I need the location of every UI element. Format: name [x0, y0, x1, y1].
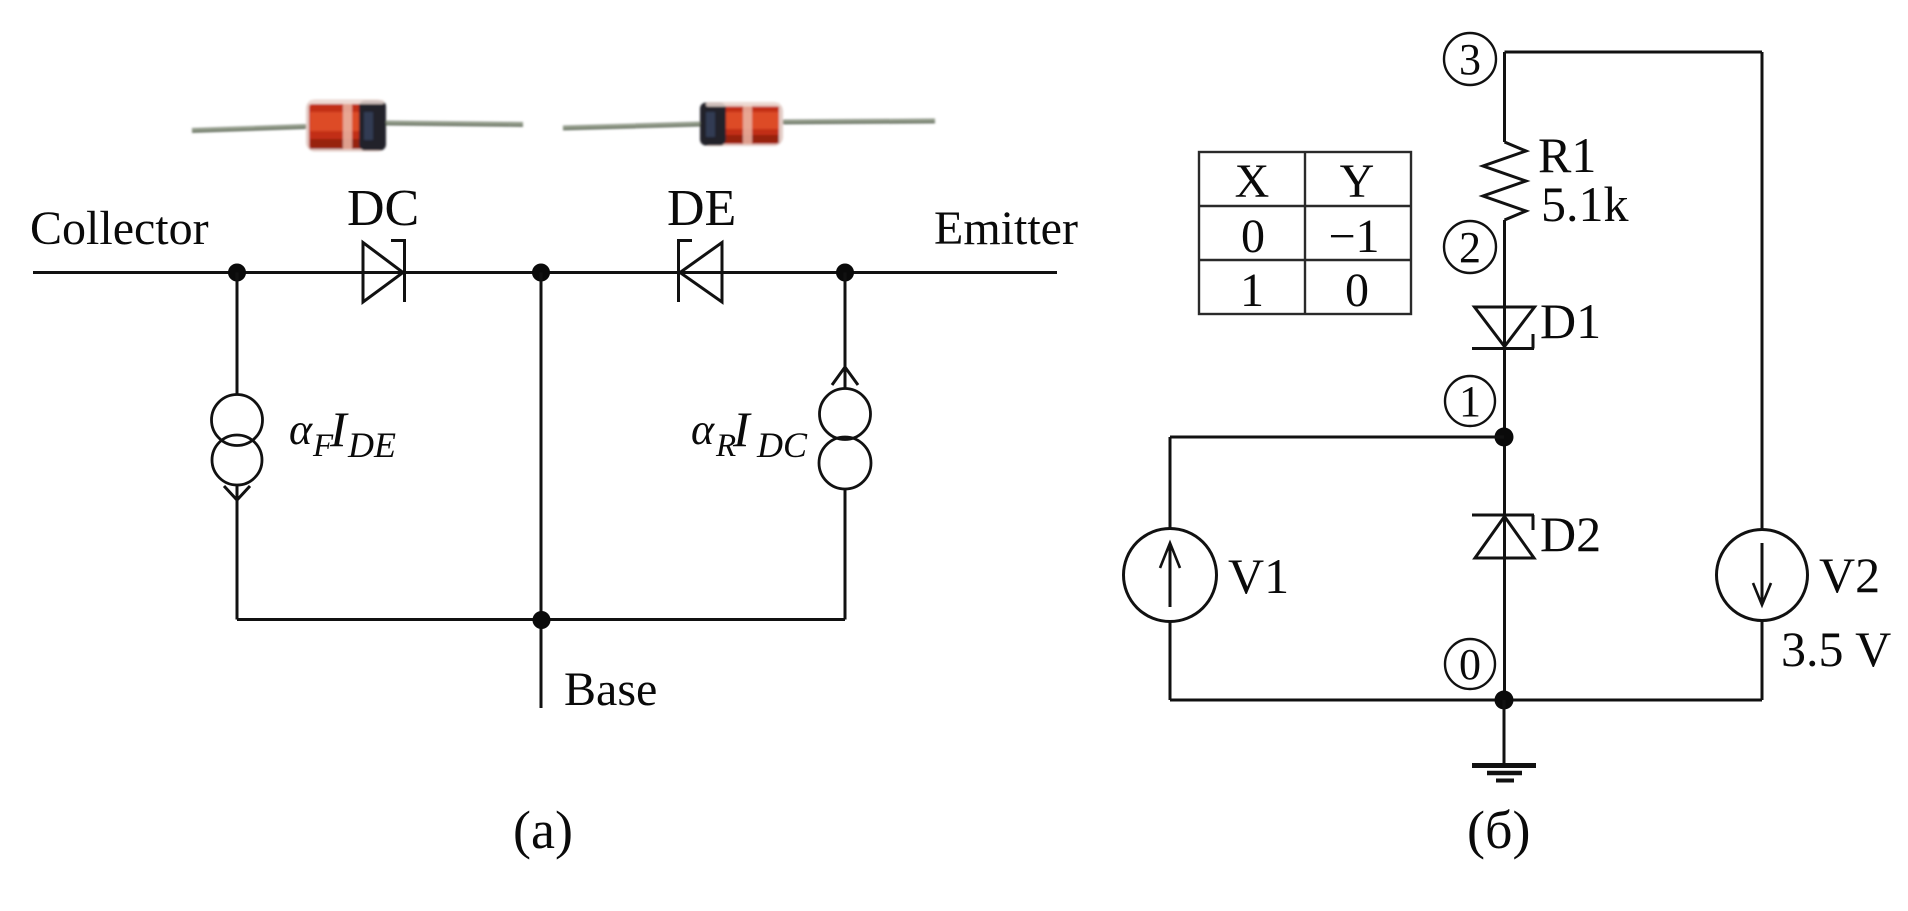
node dot collector branch: [228, 264, 246, 282]
svg-text:2: 2: [1459, 223, 1481, 272]
source V1: [1124, 437, 1217, 700]
svg-text:0: 0: [1345, 264, 1369, 317]
svg-text:α: α: [691, 405, 715, 454]
svg-text:1: 1: [1240, 264, 1264, 317]
node dot emitter branch: [836, 264, 854, 282]
wire: collector-emitter horizontal: [33, 271, 1057, 274]
wire: node1 horizontal to V1: [1170, 436, 1504, 439]
wire with down arrow below source: [224, 485, 250, 620]
svg-text:Emitter: Emitter: [934, 202, 1078, 255]
diode photo 2 (right, cathode band left): [563, 102, 935, 146]
svg-text:DC: DC: [347, 180, 419, 237]
svg-text:0: 0: [1241, 210, 1265, 263]
wire: bottom bus of model: [237, 618, 845, 621]
svg-text:(б): (б): [1467, 800, 1530, 860]
wire: top rail: [1505, 51, 1763, 54]
svg-text:α: α: [289, 405, 313, 454]
resistor R1 zigzag: [1483, 142, 1526, 220]
diode D2 symbol (cathode up): [1472, 515, 1534, 558]
svg-text:5.1k: 5.1k: [1541, 176, 1629, 232]
source V2: [1717, 52, 1808, 700]
svg-text:1: 1: [1459, 377, 1481, 426]
diode D1 symbol (cathode down): [1472, 307, 1535, 349]
svg-text:I: I: [329, 401, 349, 457]
svg-text:V2: V2: [1819, 547, 1880, 603]
node dot 1: [1495, 428, 1514, 447]
svg-text:Collector: Collector: [30, 202, 209, 255]
svg-text:Base: Base: [564, 663, 657, 716]
wire: main vertical below R1 to bottom node: [1503, 220, 1506, 700]
svg-text:DE: DE: [667, 180, 736, 237]
diode DC symbol: [363, 239, 405, 302]
svg-text:D2: D2: [1540, 506, 1601, 562]
wire below right source: [844, 489, 847, 620]
svg-text:I: I: [732, 401, 752, 457]
svg-text:R1: R1: [1538, 127, 1596, 183]
svg-text:3: 3: [1459, 35, 1481, 84]
table text X Y / 0 -1 / 1 0: [1235, 155, 1380, 317]
svg-text:V1: V1: [1228, 548, 1289, 604]
diode DE symbol: [679, 239, 723, 302]
label alpha_R I_DC: [691, 401, 808, 465]
svg-text:3.5 V: 3.5 V: [1781, 621, 1891, 677]
node circle 2: [1444, 221, 1496, 273]
node circle 0: [1445, 639, 1495, 689]
wire: main vertical above R1: [1503, 52, 1506, 142]
wire: emitter branch vertical with up arrow: [832, 273, 858, 390]
wire: bottom rail: [1170, 699, 1762, 702]
diode photo 1 (left, cathode band right): [192, 100, 523, 152]
label alpha_F I_DE: [289, 401, 396, 465]
svg-text:D1: D1: [1540, 293, 1601, 349]
node circle 3: [1444, 33, 1496, 85]
ground: [1472, 700, 1536, 781]
wire: collector branch vertical: [236, 273, 239, 396]
node dot base (top): [532, 264, 550, 282]
svg-text:0: 0: [1459, 640, 1481, 689]
svg-text:DC: DC: [756, 425, 808, 465]
wire: base vertical: [540, 273, 543, 709]
node dot 0: [1495, 691, 1514, 710]
node dot base bottom: [533, 611, 551, 629]
svg-text:X: X: [1235, 155, 1270, 208]
svg-text:(а): (а): [513, 800, 573, 860]
current source alpha_F I_DE (two circles): [212, 395, 263, 486]
svg-text:DE: DE: [347, 425, 396, 465]
svg-text:−1: −1: [1328, 210, 1379, 263]
node circle 1: [1445, 376, 1495, 426]
table XY: [1199, 152, 1411, 314]
current source alpha_R I_DC (two circles): [819, 389, 871, 490]
svg-text:Y: Y: [1340, 155, 1375, 208]
